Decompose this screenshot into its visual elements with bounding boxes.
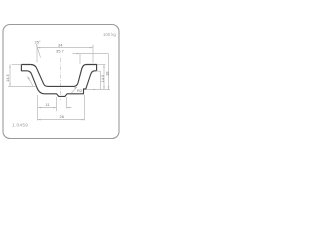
left dim ext bottom (8, 85, 36, 87)
arrow on bottom ext (93, 89, 96, 91)
svg-text:18: 18 (105, 71, 110, 76)
right dims ext bottom (86, 89, 110, 91)
svg-text:R2: R2 (77, 88, 83, 93)
right outer dim line (108, 54, 110, 90)
arrow right of dim A (90, 47, 93, 49)
bottom ext line from pad left (37, 95, 39, 121)
left vertical dim line (9, 65, 11, 87)
small arrow right of bump ext (67, 107, 70, 109)
profile outer (bottom) contour (21, 65, 96, 97)
right inner dim ext top (97, 64, 105, 66)
extension line right of dim A (92, 45, 94, 64)
bottom main dim line 26 (38, 119, 85, 121)
svg-text:35.7: 35.7 (56, 49, 65, 54)
left dim arrows (9, 65, 11, 68)
bottom ext from pad right (84, 95, 86, 121)
arrow left of dim A (37, 47, 40, 49)
angle leader line (36, 44, 40, 58)
left dim ext top (12, 64, 22, 66)
extension line left of top dim (36, 45, 38, 63)
bottom ext from bump left (56, 97, 58, 111)
svg-text:34: 34 (58, 42, 63, 47)
arrow on dim B at x80 (77, 53, 80, 55)
profile inner (top) contour (21, 65, 96, 87)
leader on left wall (28, 77, 34, 87)
right inner dim line (103, 65, 105, 90)
extension at x80 down to flange (79, 54, 81, 64)
svg-text:26: 26 (60, 114, 65, 119)
leader on right pad (72, 87, 78, 93)
bottom ext from bump right (66, 97, 68, 109)
ext line right of flange underside (97, 70, 100, 72)
small dim line 11 (38, 107, 57, 109)
svg-text:25°: 25° (35, 40, 41, 45)
svg-text:14.5: 14.5 (5, 73, 10, 82)
centerline (60, 58, 62, 100)
svg-text:100 kg: 100 kg (103, 32, 117, 37)
top dim line A (37, 47, 93, 49)
svg-text:1.0459: 1.0459 (12, 123, 28, 129)
dim line B (73, 53, 109, 55)
ext vertical at x100.5 (100, 71, 102, 89)
border frame (3, 25, 119, 139)
